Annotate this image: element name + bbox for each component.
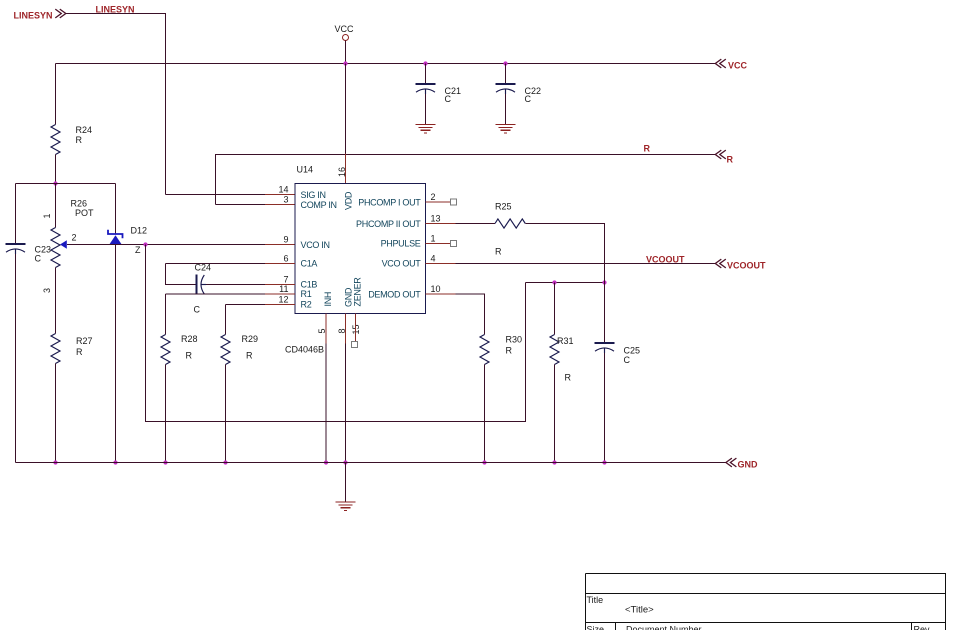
title block frame (586, 574, 946, 630)
wire VCOIN from R26 wiper to pin 9 (67, 244, 265, 246)
svg-text:14: 14 (278, 185, 288, 195)
pin 3 stub COMP IN (265, 204, 295, 206)
svg-text:PHCOMP I OUT: PHCOMP I OUT (358, 198, 421, 208)
pin 15 stub ZENER (355, 314, 357, 342)
svg-text:R1: R1 (301, 289, 312, 299)
wire pin 11 to corner (166, 293, 266, 295)
svg-text:R29: R29 (242, 334, 259, 344)
pin 13 stub PHCOMP II OUT (426, 223, 456, 225)
junction VCOIN node (143, 242, 147, 246)
wire down to R29 (225, 305, 227, 335)
svg-text:3: 3 (283, 195, 288, 205)
wire pin 6 to corner (166, 263, 266, 265)
svg-text:COMP IN: COMP IN (301, 200, 337, 210)
svg-text:Document Number: Document Number (626, 624, 702, 630)
junction C25 at GND rail (602, 460, 606, 464)
resistor R29 (221, 335, 230, 365)
no-connect square pin 15 (352, 342, 358, 348)
wire COMP IN to R connector (216, 155, 716, 205)
svg-text:Rev: Rev (914, 624, 931, 630)
wire loop filter horizontal (526, 282, 605, 284)
svg-text:C1B: C1B (301, 280, 318, 290)
wire INH to GND rail (325, 344, 327, 463)
wire R31 to GND rail (554, 365, 556, 463)
svg-text:10: 10 (431, 284, 441, 294)
wire down to R28 (165, 294, 167, 335)
svg-text:2: 2 (431, 192, 436, 202)
svg-text:VCC: VCC (728, 61, 748, 71)
ground below pin 8 (335, 502, 355, 511)
wire C23 to GND rail (15, 254, 17, 463)
wire VCC rail to C21 (425, 64, 427, 85)
ground under C22 (495, 125, 515, 134)
svg-text:2: 2 (72, 233, 77, 243)
wire C22 to ground (505, 94, 507, 125)
resistor R31 (550, 335, 559, 365)
svg-text:LINESYN: LINESYN (14, 10, 53, 20)
pin 9 stub VCO IN (265, 244, 295, 246)
svg-text:R: R (495, 247, 502, 257)
svg-text:R: R (644, 144, 651, 154)
svg-text:R: R (76, 347, 83, 357)
svg-text:Z: Z (135, 245, 141, 255)
svg-text:C: C (624, 355, 631, 365)
junction VCC at VDD drop (343, 61, 347, 65)
svg-text:U14: U14 (297, 165, 314, 175)
power symbol VCC circle (343, 35, 349, 41)
resistor R30 (480, 335, 489, 365)
svg-text:R31: R31 (557, 336, 574, 346)
wire LINESYN from connector to pin 14 (66, 14, 166, 195)
svg-text:6: 6 (283, 254, 288, 264)
svg-text:C24: C24 (195, 262, 212, 272)
wire C21 to ground (425, 94, 427, 125)
svg-text:VCOOUT: VCOOUT (646, 254, 685, 264)
svg-text:DEMOD OUT: DEMOD OUT (368, 290, 421, 300)
svg-text:R: R (506, 346, 513, 356)
svg-text:3: 3 (42, 288, 52, 293)
svg-text:R: R (76, 135, 83, 145)
wire C25 to GND rail (604, 353, 606, 463)
capacitor C23 (6, 244, 26, 254)
junction VCC at C22 (503, 61, 507, 65)
svg-text:CD4046B: CD4046B (285, 344, 324, 354)
off-page connector VCOOUT chevrons (715, 259, 726, 268)
wire VCC symbol to VCC rail (345, 41, 347, 64)
op-amp U14 CD4046B IC body (295, 184, 426, 314)
svg-text:R30: R30 (506, 335, 523, 345)
svg-text:<Title>: <Title> (625, 604, 654, 615)
pin 7 stub C1B (265, 284, 295, 286)
wire filter node to R31 (554, 283, 556, 335)
junction at R24/R26 node (53, 181, 57, 185)
wire node to C23 (15, 184, 17, 245)
junction INH at GND rail (324, 460, 328, 464)
capacitor C25 (595, 343, 615, 353)
svg-text:Size: Size (587, 624, 605, 630)
svg-text:Title: Title (587, 595, 604, 605)
potentiometer R26 wiper arrow (60, 240, 67, 249)
wire D12 anode to GND rail (115, 245, 117, 463)
ground under C21 (415, 125, 435, 134)
wire GND rail to ground symbol (345, 463, 347, 503)
svg-text:1: 1 (42, 213, 52, 218)
wire R25 to C25 node (525, 224, 604, 344)
pin 14 stub SIG IN (265, 194, 295, 196)
svg-text:C: C (445, 94, 452, 104)
svg-text:C: C (35, 254, 42, 264)
wire VCOIN to loop filter (146, 245, 526, 422)
svg-text:R27: R27 (76, 336, 93, 346)
svg-text:R25: R25 (495, 201, 512, 211)
svg-text:R28: R28 (181, 334, 198, 344)
svg-text:PHCOMP II OUT: PHCOMP II OUT (356, 219, 421, 229)
wire R30 to GND rail (484, 365, 486, 463)
svg-text:VCO OUT: VCO OUT (382, 259, 422, 269)
resistor R25 (495, 219, 525, 228)
capacitor C24 (197, 275, 207, 295)
wire to pin 3 (216, 204, 266, 206)
svg-text:C1A: C1A (301, 259, 318, 269)
resistor R24 (51, 125, 60, 155)
wire LINESYN to pin 14 (166, 194, 266, 196)
svg-text:11: 11 (279, 284, 288, 294)
wire VCC rail to C22 (505, 64, 507, 85)
svg-text:R: R (186, 350, 193, 360)
junction C25 top (602, 280, 606, 284)
wire R27 bottom to GND rail (55, 364, 57, 463)
junction pin 8 at GND rail (343, 460, 347, 464)
wire GND rail (16, 462, 726, 464)
wire VCC rail (56, 63, 716, 65)
svg-text:R24: R24 (76, 125, 93, 135)
svg-text:C: C (525, 94, 532, 104)
pin 6 stub C1A (265, 263, 295, 265)
junction R27 at GND rail (53, 460, 57, 464)
wire node A horizontal (16, 183, 116, 185)
svg-text:4: 4 (431, 254, 436, 264)
pin 5 stub INH (325, 314, 327, 344)
svg-text:POT: POT (75, 208, 94, 218)
junction R31 at GND rail (552, 460, 556, 464)
junction R28 at GND rail (163, 460, 167, 464)
pin 12 stub R2 (265, 304, 295, 306)
pin 8 stub GND (345, 314, 347, 344)
wire DEMOD OUT to R30 (456, 294, 485, 335)
no-connect square pin 2 (451, 199, 457, 205)
svg-text:ZENER: ZENER (353, 277, 363, 307)
svg-text:C: C (194, 304, 201, 314)
potentiometer R26 (51, 228, 60, 268)
wire R24 bottom to node (55, 155, 57, 184)
wire R26 bottom to R27 top (55, 268, 57, 334)
svg-text:VCC: VCC (335, 24, 355, 34)
wire R28 to GND rail (165, 365, 167, 463)
junction R31 top (552, 280, 556, 284)
wire down to C24 left plate (166, 264, 197, 285)
svg-text:13: 13 (431, 214, 441, 224)
svg-text:7: 7 (283, 275, 288, 285)
wire C24 right to pin 7 (206, 284, 265, 286)
pin 10 stub DEMOD OUT (426, 293, 456, 295)
resistor R28 (161, 335, 170, 365)
off-page connector GND chevrons (726, 458, 737, 467)
diode D12 triangle (109, 235, 121, 244)
diode D12 zener cathode bar (108, 230, 123, 238)
capacitor C21 (416, 84, 436, 94)
junction D12 branch at GND rail (113, 460, 117, 464)
pin 1 stub PHPULSE (426, 243, 451, 245)
wire VCO OUT to VCOOUT connector (456, 263, 716, 265)
off-page connector R chevrons (715, 150, 726, 159)
pin 4 stub VCO OUT (426, 263, 456, 265)
wire pin 12 to corner (226, 304, 266, 306)
wire VCC rail to R24 top (55, 64, 57, 125)
wire pin 13 to R25 (456, 223, 496, 225)
svg-text:R: R (727, 154, 734, 164)
svg-text:VCO IN: VCO IN (301, 240, 330, 250)
wire node to R26 top (55, 184, 57, 228)
pin 2 stub PHCOMP I OUT (426, 201, 451, 203)
svg-text:R: R (246, 350, 253, 360)
svg-text:INH: INH (323, 292, 333, 307)
svg-text:VCOOUT: VCOOUT (727, 260, 766, 270)
pin 11 stub R1 (265, 293, 295, 295)
svg-text:R26: R26 (71, 198, 88, 208)
svg-text:D12: D12 (131, 225, 148, 235)
svg-text:R: R (565, 373, 572, 383)
svg-text:PHPULSE: PHPULSE (381, 239, 421, 249)
junction R29 at GND rail (223, 460, 227, 464)
wire R29 to GND rail (225, 365, 227, 463)
wire pin 8 to GND rail (345, 344, 347, 463)
svg-text:5: 5 (317, 328, 327, 333)
capacitor C22 (496, 84, 516, 94)
wire node to D12 cathode (115, 184, 117, 235)
off-page connector VCC chevrons (715, 59, 726, 68)
wire VCC rail down to pin 16 (345, 64, 347, 154)
off-page connector LINESYN chevrons (55, 9, 66, 18)
svg-text:GND: GND (738, 459, 759, 469)
svg-text:9: 9 (283, 235, 288, 245)
svg-text:R2: R2 (301, 300, 312, 310)
no-connect square pin 1 (451, 241, 457, 247)
pin 16 stub VDD (345, 154, 347, 184)
svg-text:VDD: VDD (344, 191, 354, 210)
resistor R27 (51, 334, 60, 364)
junction VCC at C21 (423, 61, 427, 65)
svg-text:SIG IN: SIG IN (301, 190, 326, 200)
svg-text:12: 12 (278, 295, 288, 305)
junction R30 at GND rail (482, 460, 486, 464)
svg-text:1: 1 (431, 234, 436, 244)
svg-text:16: 16 (337, 167, 347, 177)
